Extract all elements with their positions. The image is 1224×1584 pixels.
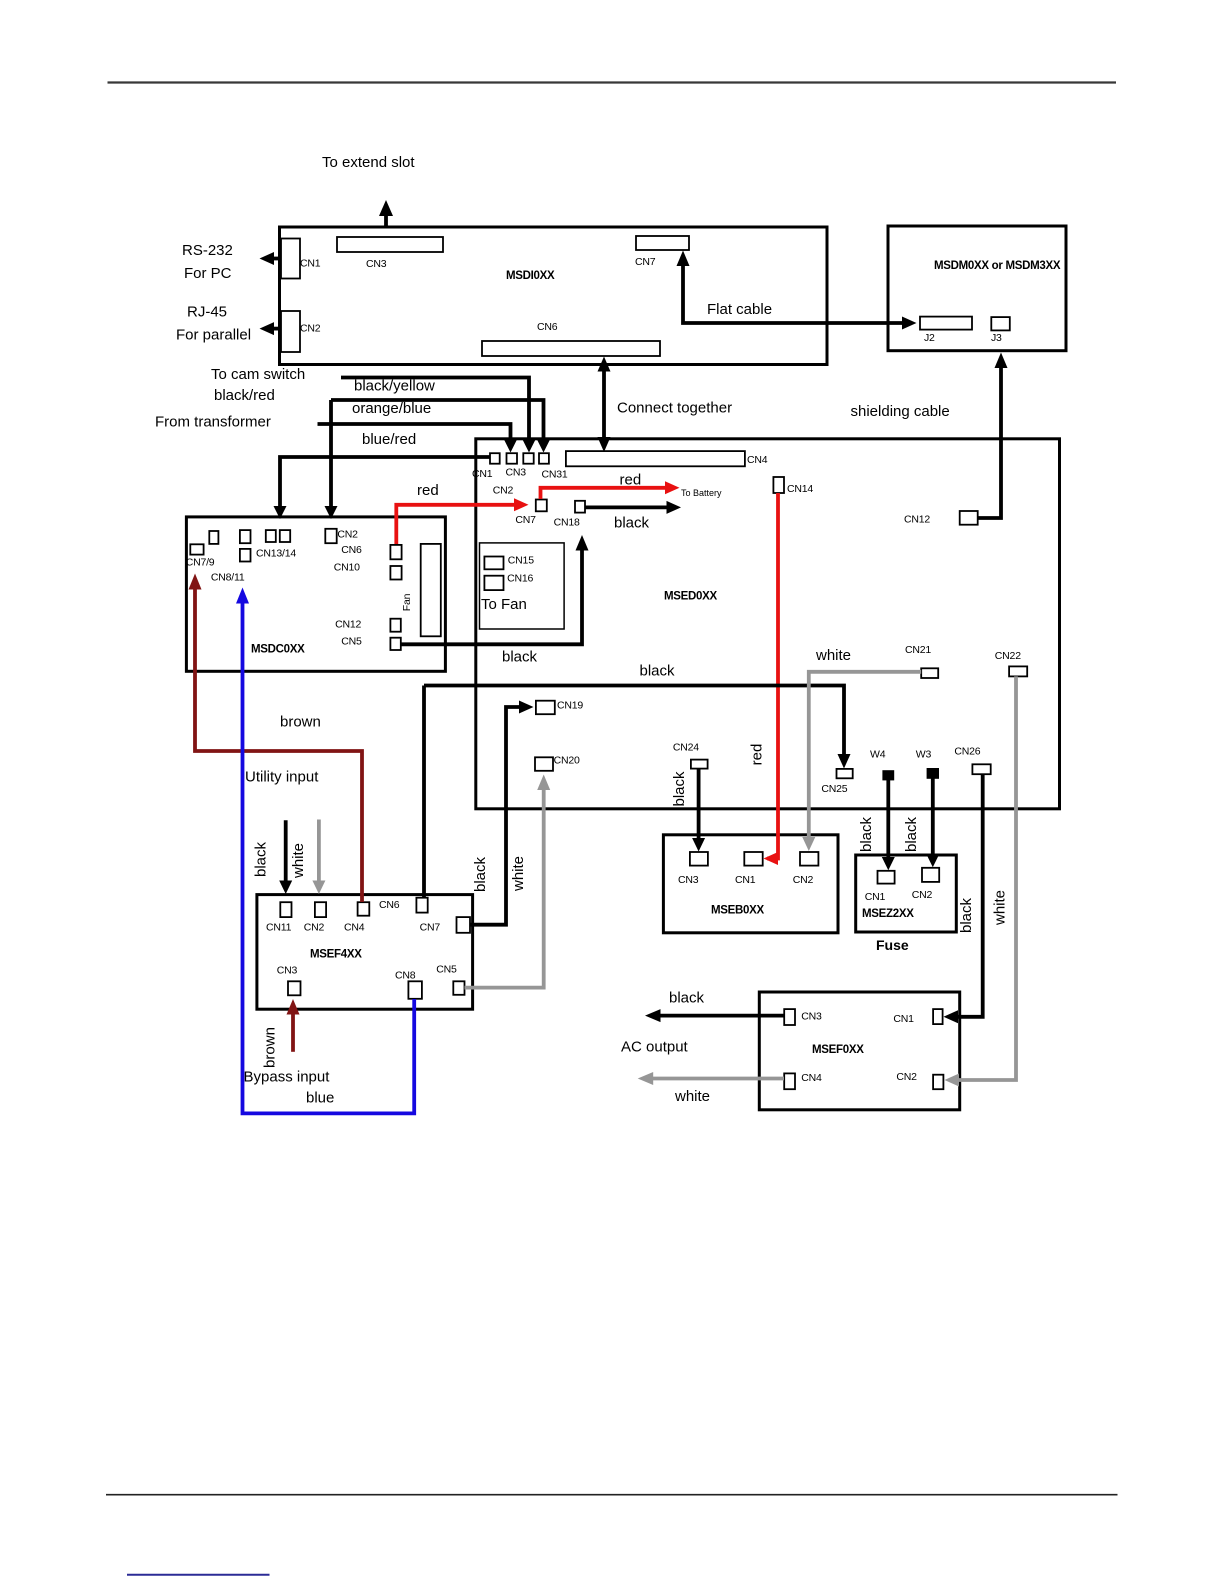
board MSEZ2XX (fuse board)	[856, 855, 957, 932]
svg-text:red: red	[620, 472, 642, 489]
board MSEF4XX	[257, 895, 473, 1010]
connector CN5 (MSEF4)	[453, 981, 464, 995]
connector CN24 (MSED)	[691, 760, 708, 769]
board MSDI0XX	[280, 227, 828, 365]
connector CN3 (MSDI)	[337, 237, 443, 252]
svg-text:RJ-45: RJ-45	[187, 304, 227, 321]
connector CN18 (MSED)	[575, 501, 585, 513]
svg-text:shielding cable: shielding cable	[851, 403, 950, 420]
svg-text:To extend slot: To extend slot	[322, 154, 415, 171]
svg-text:CN16: CN16	[507, 573, 533, 585]
svg-text:black: black	[502, 649, 538, 666]
page bottom rule	[106, 1494, 1118, 1496]
svg-text:CN4: CN4	[344, 922, 365, 934]
connector CN11 (MSEF4)	[280, 902, 291, 917]
wire brown bypass input (arrow up to MSEF4 CN3)	[287, 999, 300, 1052]
svg-text:CN8/11: CN8/11	[211, 572, 245, 584]
svg-text:CN19: CN19	[557, 700, 583, 712]
svg-text:CN20: CN20	[554, 755, 580, 767]
connector J3	[991, 317, 1010, 330]
connector CN7/9 (MSDC)	[190, 544, 203, 554]
svg-text:white: white	[991, 890, 1008, 926]
connector CN3 (MSEB)	[690, 852, 708, 866]
svg-text:CN7: CN7	[635, 256, 656, 268]
svg-text:To Battery: To Battery	[681, 488, 722, 498]
connector CN3 (MSEF4)	[288, 981, 301, 995]
svg-text:CN3: CN3	[506, 467, 527, 479]
svg-text:W3: W3	[916, 749, 932, 761]
svg-text:MSED0XX: MSED0XX	[664, 591, 717, 603]
wire black MSDC CN5 to CN18 (arrow up)	[401, 535, 589, 644]
svg-text:black/yellow: black/yellow	[354, 378, 435, 395]
svg-text:MSDI0XX: MSDI0XX	[506, 270, 555, 282]
svg-text:CN3: CN3	[366, 258, 387, 270]
svg-text:black: black	[614, 515, 650, 532]
connector CN7 (MSEF4)	[457, 917, 471, 933]
svg-text:MSEF0XX: MSEF0XX	[812, 1044, 864, 1056]
wire blue (MSDC CN8/11 down, right, up to MSEF4 CN8)	[236, 588, 414, 1114]
connector CN7 (MSDI)	[636, 236, 689, 250]
svg-text:CN22: CN22	[995, 650, 1021, 662]
connector CN1 (MSDI)	[281, 239, 300, 279]
connector CN13/14 square a	[240, 530, 251, 543]
wire black main run (to CN25 arrow down, branch down to MSEF4 CN6)	[424, 686, 851, 898]
svg-text:RS-232: RS-232	[182, 242, 233, 259]
connector CN5 (MSDC right column)	[390, 638, 400, 650]
connector CN2 (MSDI)	[281, 311, 300, 352]
svg-text:Bypass input: Bypass input	[244, 1069, 331, 1086]
connector CN26 (MSED)	[972, 764, 990, 774]
svg-text:J3: J3	[991, 332, 1002, 344]
svg-text:From transformer: From transformer	[155, 414, 271, 431]
connector CN31 square (MSED)	[539, 453, 549, 464]
svg-text:CN12: CN12	[904, 514, 930, 526]
connector CN4 (MSEF4)	[358, 902, 370, 916]
svg-text:black: black	[252, 841, 269, 877]
connector CN2 (MSEF0)	[933, 1075, 943, 1090]
svg-text:For PC: For PC	[184, 265, 232, 282]
connector CN14 (MSED)	[773, 477, 784, 493]
svg-text:CN6: CN6	[537, 321, 558, 333]
connector square (MSDC a)	[209, 531, 218, 544]
connector CN2 (MSEZ)	[922, 868, 939, 882]
wire red CN14 to MSEB CN1 (down then arrow left)	[764, 493, 779, 865]
connector CN2 (MSEF4)	[315, 902, 326, 917]
connector CN3 square b (MSED)	[523, 453, 533, 464]
svg-text:black/red: black/red	[214, 387, 275, 404]
svg-text:CN2: CN2	[300, 323, 321, 335]
connector J2	[920, 317, 972, 330]
svg-text:Utility input: Utility input	[245, 769, 319, 786]
svg-text:CN31: CN31	[542, 469, 568, 481]
connector CN6 (MSDC right column)	[390, 545, 401, 559]
svg-text:CN1: CN1	[300, 258, 321, 270]
board MSEB0XX	[663, 835, 838, 933]
page top rule	[108, 81, 1117, 83]
wire gray CN22 to MSEF0 CN2 (arrow left)	[945, 676, 1017, 1086]
svg-text:CN10: CN10	[334, 562, 360, 574]
connector CN25 (MSED)	[837, 769, 853, 778]
connector CN1 (MSEZ)	[878, 871, 895, 884]
connector CN4 (MSEF0)	[784, 1073, 795, 1089]
svg-text:CN7: CN7	[515, 514, 536, 526]
svg-text:CN18: CN18	[554, 517, 580, 529]
connector CN22 (MSED)	[1009, 666, 1027, 676]
wire black AC output (arrow left from MSEF0 CN3)	[645, 1009, 784, 1022]
svg-text:CN25: CN25	[821, 783, 847, 795]
svg-text:Connect together: Connect together	[617, 400, 732, 417]
svg-text:black: black	[858, 816, 875, 852]
wire brown utility input (MSDC CN7/9 down, right, down to MSEF4 CN4)	[189, 574, 363, 903]
svg-text:Fan: Fan	[401, 593, 413, 611]
wire to cam switch (MSED CN1 sq to MSDC, arrow down)	[274, 457, 490, 519]
svg-text:CN4: CN4	[747, 454, 768, 466]
wire black to battery (from MSED CN18 right)	[586, 501, 682, 514]
svg-text:CN13/14: CN13/14	[256, 548, 296, 560]
svg-text:CN26: CN26	[954, 746, 980, 758]
board MSEF0XX	[759, 992, 959, 1110]
svg-text:black: black	[671, 771, 688, 807]
connector CN1 (MSEF0)	[933, 1009, 943, 1024]
svg-text:CN2: CN2	[304, 922, 325, 934]
wire connect together (double arrow MSDI CN6 to MSED top)	[598, 357, 611, 453]
svg-text:MSEB0XX: MSEB0XX	[711, 905, 764, 917]
svg-text:To cam switch: To cam switch	[211, 366, 305, 383]
connector CN6 (MSDI)	[482, 341, 660, 356]
connector CN21 (MSED)	[921, 668, 938, 678]
wire shielding cable (CN12 to J3, arrow up)	[978, 353, 1008, 519]
svg-text:CN15: CN15	[508, 555, 534, 567]
board MSDC0XX	[186, 517, 445, 671]
footer blue underline	[127, 1574, 270, 1576]
svg-text:black: black	[958, 897, 975, 933]
svg-text:CN6: CN6	[341, 544, 362, 556]
svg-text:black: black	[903, 816, 920, 852]
wire black/yellow (to MSED CN3 sq)	[341, 378, 536, 453]
connector CN6 (MSEF4)	[416, 898, 427, 913]
wire orange/blue (to MSED CN31 and down to MSDC)	[325, 400, 551, 519]
wire black W3 to MSEZ CN2 (arrow down)	[926, 778, 939, 867]
connector square pair c1	[266, 530, 276, 542]
svg-text:white: white	[290, 843, 307, 879]
svg-text:CN2: CN2	[493, 485, 514, 497]
svg-text:For parallel: For parallel	[176, 327, 251, 344]
wire white into MSEF4 CN2 (gray arrow down)	[312, 820, 325, 895]
wire black into MSEF4 CN11 (arrow down)	[279, 820, 292, 894]
connector CN1 square (MSED)	[490, 453, 500, 464]
wire red MSDC to MSED CN7 (arrow right)	[396, 498, 528, 544]
board MSDM0XX or MSDM3XX	[888, 226, 1066, 351]
connector CN3 square a (MSED)	[507, 453, 518, 464]
svg-text:CN12: CN12	[335, 619, 361, 631]
svg-text:CN4: CN4	[801, 1072, 822, 1084]
svg-text:MSDC0XX: MSDC0XX	[251, 644, 305, 656]
connector CN12 (MSED)	[960, 511, 978, 525]
wire to extend slot (arrow up from MSDI top)	[379, 200, 393, 227]
connector CN13/14 square b	[240, 549, 251, 562]
wire black CN26 to MSEF0 CN1 (arrow left)	[944, 774, 983, 1023]
svg-text:CN3: CN3	[801, 1011, 822, 1023]
svg-text:black: black	[472, 856, 489, 892]
wire gray CN20 to MSEF4 CN5 (arrow up)	[465, 775, 551, 988]
svg-text:black: black	[669, 990, 705, 1007]
wire RJ-45 arrow (left from CN2)	[260, 322, 281, 335]
connector Fan header (MSDC)	[421, 544, 441, 636]
connector CN2 (MSDC)	[325, 529, 336, 543]
connector CN3 (MSEF0)	[784, 1009, 795, 1025]
svg-text:white: white	[674, 1088, 710, 1105]
connector CN1 (MSEB)	[744, 852, 762, 866]
svg-text:Flat cable: Flat cable	[707, 301, 772, 318]
connector CN19 (MSED)	[536, 701, 555, 715]
svg-text:CN24: CN24	[673, 742, 699, 754]
connector square pair c2	[280, 530, 290, 542]
connector W4 (filled)	[882, 770, 894, 780]
svg-text:brown: brown	[280, 714, 321, 731]
svg-text:red: red	[417, 482, 439, 499]
svg-text:AC output: AC output	[621, 1039, 689, 1056]
connector CN12 (MSDC right column)	[390, 619, 400, 632]
wire from transformer (to MSED CN3 sq a)	[318, 424, 518, 453]
svg-text:CN3: CN3	[678, 874, 699, 886]
connector CN16 (MSED)	[484, 576, 503, 590]
svg-text:CN2: CN2	[337, 529, 358, 541]
svg-text:Fuse: Fuse	[876, 937, 909, 953]
svg-text:CN1: CN1	[735, 874, 756, 886]
svg-text:W4: W4	[870, 749, 886, 761]
connector CN15 (MSED)	[484, 557, 503, 570]
svg-text:white: white	[815, 647, 851, 664]
svg-text:CN1: CN1	[893, 1013, 914, 1025]
svg-text:CN14: CN14	[787, 483, 813, 495]
svg-text:brown: brown	[261, 1027, 278, 1068]
svg-text:blue: blue	[306, 1090, 334, 1107]
wire black CN24 to MSEB CN3 (arrow down)	[692, 769, 705, 852]
svg-text:orange/blue: orange/blue	[352, 400, 431, 417]
connector CN7 (MSED)	[536, 500, 547, 512]
svg-text:CN1: CN1	[472, 468, 493, 480]
wire black CN19 to MSEF4 CN7	[470, 701, 534, 925]
svg-text:MSEZ2XX: MSEZ2XX	[862, 908, 914, 920]
connector CN4 (MSED)	[566, 451, 745, 466]
svg-text:MSEF4XX: MSEF4XX	[310, 949, 362, 961]
wire gray CN21 to MSEB CN2 (arrow down)	[802, 672, 921, 851]
svg-text:CN7: CN7	[420, 922, 441, 934]
connector CN20 (MSED)	[535, 757, 553, 771]
svg-text:CN8: CN8	[395, 970, 416, 982]
svg-text:CN21: CN21	[905, 644, 931, 656]
board MSED0XX	[476, 439, 1060, 809]
svg-text:J2: J2	[924, 332, 935, 344]
svg-text:CN5: CN5	[341, 636, 362, 648]
wire black W4 to MSEZ CN1 (arrow down)	[882, 780, 895, 870]
svg-text:white: white	[510, 856, 527, 892]
svg-text:blue/red: blue/red	[362, 431, 416, 448]
svg-text:black: black	[640, 663, 676, 680]
wire RS-232 arrow (left from CN1)	[260, 252, 281, 265]
svg-text:CN2: CN2	[912, 889, 933, 901]
wire red to battery (from MSED CN7 up and right)	[541, 481, 680, 499]
connector W3 (filled)	[927, 768, 939, 779]
connector CN8 (MSEF4)	[408, 981, 422, 999]
svg-text:CN6: CN6	[379, 899, 400, 911]
svg-text:CN1: CN1	[865, 891, 886, 903]
svg-text:To Fan: To Fan	[481, 596, 527, 613]
svg-text:MSDM0XX or MSDM3XX: MSDM0XX or MSDM3XX	[934, 260, 1061, 272]
svg-text:CN2: CN2	[896, 1071, 917, 1083]
svg-text:red: red	[748, 744, 765, 766]
svg-text:CN11: CN11	[266, 922, 292, 934]
svg-text:CN7/9: CN7/9	[186, 557, 215, 569]
wire flat cable (MSED CN7 arrow up + horizontal to J2)	[677, 251, 917, 330]
svg-text:CN5: CN5	[436, 964, 457, 976]
To Fan sub-box	[480, 543, 565, 629]
connector CN2 (MSEB)	[800, 852, 818, 866]
svg-text:CN2: CN2	[793, 874, 814, 886]
connector CN10 (MSDC right column)	[390, 566, 401, 580]
svg-text:CN3: CN3	[277, 965, 298, 977]
wire white AC output (gray arrow left from MSEF0 CN4)	[638, 1072, 784, 1085]
